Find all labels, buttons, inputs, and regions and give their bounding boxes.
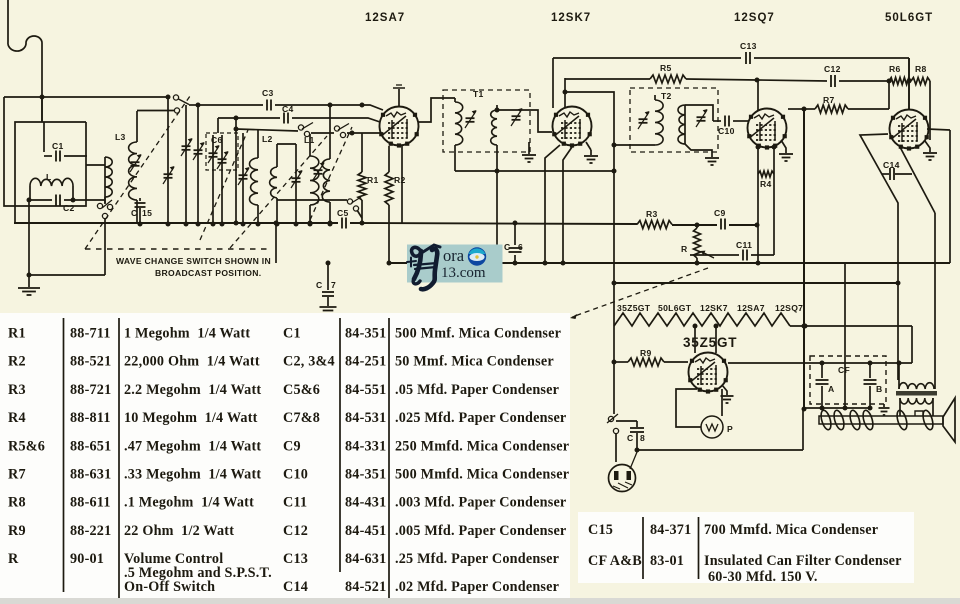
svg-text:60-30 Mfd. 150 V.: 60-30 Mfd. 150 V. <box>708 569 818 585</box>
svg-text:C3: C3 <box>262 88 274 98</box>
filter CF dashed box <box>810 356 886 404</box>
wire SW4 to 12SA7 grid <box>347 132 380 134</box>
svg-text:C1: C1 <box>283 326 301 342</box>
plug <box>609 465 636 492</box>
wire output diagonal D2 <box>900 147 935 213</box>
T1 winding primary <box>454 98 456 102</box>
svg-text:R4: R4 <box>8 410 26 426</box>
svg-text:12SA7: 12SA7 <box>365 12 405 24</box>
wire R7 right corner <box>888 81 890 109</box>
svg-text:R5&6: R5&6 <box>8 438 45 454</box>
svg-text:88-711: 88-711 <box>70 326 111 342</box>
svg-text:84-431: 84-431 <box>345 495 386 511</box>
T2 winding primary <box>654 95 656 100</box>
svg-text:6: 6 <box>518 242 523 252</box>
trimmer gang vert 1 <box>167 97 169 224</box>
svg-text:R3: R3 <box>8 382 26 398</box>
parts table C15 CF <box>578 512 914 583</box>
svg-text:C13: C13 <box>283 551 308 567</box>
T1 winding secondary <box>496 105 498 110</box>
svg-text:L3: L3 <box>115 132 126 142</box>
ground G3 under T1 <box>528 142 530 154</box>
dashed gang line 4 <box>310 127 352 220</box>
svg-text:88-651: 88-651 <box>70 438 111 454</box>
svg-text:R4: R4 <box>760 179 772 189</box>
dashed gang line 3 <box>230 136 327 248</box>
svg-text:R7: R7 <box>823 95 835 105</box>
transformer T2 dashed box <box>630 88 718 152</box>
svg-text:L2: L2 <box>262 134 273 144</box>
svg-text:R3: R3 <box>646 209 658 219</box>
svg-text:C14: C14 <box>883 160 900 170</box>
tube 50L6GT <box>890 110 929 149</box>
svg-text:T2: T2 <box>661 91 672 101</box>
svg-text:C1: C1 <box>52 141 64 151</box>
svg-text:R1: R1 <box>367 175 379 185</box>
tube 12SK7 <box>553 107 592 146</box>
wire T1 sec top to 12SK7 grid <box>497 110 552 132</box>
svg-text:BROADCAST POSITION.: BROADCAST POSITION. <box>155 268 261 278</box>
coil L3 winding A <box>105 157 112 197</box>
trimmer gang vert 2b <box>185 105 187 224</box>
coil L2 winding C <box>276 144 278 167</box>
output transformer core <box>896 391 937 396</box>
trimmer gang vert 2 <box>197 105 199 224</box>
svg-text:84-371: 84-371 <box>650 522 691 538</box>
svg-text:R: R <box>681 244 688 254</box>
capacitor C12 <box>757 80 827 81</box>
svg-text:C2, 3&4: C2, 3&4 <box>283 354 335 370</box>
ground G2 under C7 <box>320 306 337 308</box>
svg-text:22 Ohm 1/2 Watt: 22 Ohm 1/2 Watt <box>124 523 234 539</box>
svg-text:C10: C10 <box>718 126 735 136</box>
capacitor C2 <box>29 199 52 201</box>
svg-text:12SQ7: 12SQ7 <box>734 12 775 24</box>
bus B AVC <box>389 262 950 264</box>
capacitor C11 <box>690 254 739 256</box>
bus C ground <box>614 282 898 284</box>
svg-text:7: 7 <box>331 280 336 290</box>
wire T1 AVC return <box>455 170 614 172</box>
svg-text:R1: R1 <box>8 326 26 342</box>
wire R5 screen corner <box>564 78 566 107</box>
svg-text:15: 15 <box>142 208 152 218</box>
coil L2 winding A <box>242 133 244 224</box>
T2 winding secondary <box>684 105 686 144</box>
wire B plus from cathode <box>728 362 912 364</box>
wire 12SK7 cathode 1 <box>545 145 560 263</box>
svg-text:.02 Mfd. Paper Condenser: .02 Mfd. Paper Condenser <box>395 579 559 595</box>
dashed gang line 2 <box>200 130 248 240</box>
switch SW4 <box>334 126 339 131</box>
capacitor C9 <box>717 219 729 230</box>
switch SW6 osc tap <box>347 199 352 204</box>
capacitor C10 <box>713 120 721 122</box>
capacitor C6 bypass <box>514 223 516 245</box>
svg-text:C5&6: C5&6 <box>283 382 320 398</box>
svg-text:90-01: 90-01 <box>70 551 104 567</box>
svg-text:12SK7: 12SK7 <box>551 12 591 24</box>
svg-text:88-521: 88-521 <box>70 354 111 370</box>
wire 35Z5 heater taps <box>694 326 696 353</box>
svg-text:C9: C9 <box>714 208 726 218</box>
resistor R2 <box>388 146 390 172</box>
node antenna junction <box>40 95 45 100</box>
wire R8 to 50L6 <box>929 81 931 140</box>
resistor R4 <box>757 147 759 168</box>
svg-text:84-351: 84-351 <box>345 326 386 342</box>
resistor R3 <box>637 221 672 229</box>
trimmer between L2 L1 <box>295 144 297 224</box>
svg-text:C2: C2 <box>63 203 75 213</box>
svg-text:.025 Mfd. Paper Condenser: .025 Mfd. Paper Condenser <box>395 410 566 426</box>
volume control wiper arrow <box>704 253 714 258</box>
capacitor C4 <box>280 113 292 124</box>
svg-text:84-631: 84-631 <box>345 551 386 567</box>
svg-text:L1: L1 <box>304 135 315 145</box>
ground G1 main <box>28 275 30 287</box>
bus A chassis AVC <box>14 222 338 224</box>
svg-text:84-351: 84-351 <box>345 467 386 483</box>
trimmer C6 dashed box <box>206 133 238 170</box>
svg-text:.33 Megohm 1/4 Watt: .33 Megohm 1/4 Watt <box>124 467 261 483</box>
wire T2 sec to C10 <box>685 105 713 121</box>
capacitor C3 <box>263 99 275 110</box>
wire C13 corner right <box>908 58 910 110</box>
loop antenna inner frame <box>15 122 86 206</box>
heater chain sawtooth <box>614 313 790 326</box>
svg-text:35Z5GT: 35Z5GT <box>683 335 737 350</box>
svg-text:C15: C15 <box>588 522 613 538</box>
capacitor C8 <box>616 420 637 422</box>
svg-text:R5: R5 <box>660 63 672 73</box>
svg-text:C6: C6 <box>211 135 223 145</box>
wire switch to plug <box>615 434 617 462</box>
resistor R1 <box>361 133 363 172</box>
svg-text:84-251: 84-251 <box>345 354 386 370</box>
trimmer gang vert 4 <box>221 135 223 224</box>
svg-text:.003 Mfd. Paper Condenser: .003 Mfd. Paper Condenser <box>395 495 566 511</box>
svg-text:1 Megohm 1/4 Watt: 1 Megohm 1/4 Watt <box>124 326 250 342</box>
svg-text:A: A <box>828 384 835 394</box>
ground G7 under 50L6 <box>925 141 930 152</box>
wire 12SQ7 top to C12 line <box>757 81 759 110</box>
svg-text:C10: C10 <box>283 467 308 483</box>
wire C13 corner left <box>552 58 554 108</box>
dashed link volume-switch <box>572 268 708 317</box>
coil L1 winding B <box>329 105 331 159</box>
wire after SW1 <box>189 104 198 106</box>
pilot lamp P <box>701 416 723 438</box>
tube 12SQ7 <box>748 109 787 148</box>
output transformer secondary <box>900 398 933 404</box>
svg-text:84-531: 84-531 <box>345 410 386 426</box>
wire loop to bus corner <box>14 206 16 223</box>
T1 trimmer primary <box>466 117 475 119</box>
svg-text:R8: R8 <box>915 64 927 74</box>
switch SW2 loop <box>97 203 102 208</box>
wire 12SK7 cathode 2 <box>563 147 572 263</box>
svg-text:12SK7: 12SK7 <box>700 303 728 313</box>
wire busB to CF <box>844 263 846 408</box>
T2 trimmer primary <box>639 118 648 120</box>
resistor R6 <box>889 78 911 85</box>
wire busB left end <box>275 223 277 263</box>
wire osc tap <box>277 199 347 201</box>
svg-text:84-551: 84-551 <box>345 382 386 398</box>
heater loom loops <box>819 409 833 431</box>
wire C2 to ground run <box>28 200 30 275</box>
transformer T1 dashed box <box>443 90 530 152</box>
output transformer primary <box>898 363 900 389</box>
svg-text:C: C <box>131 208 138 218</box>
svg-text:.47 Megohm 1/4 Watt: .47 Megohm 1/4 Watt <box>124 438 261 454</box>
svg-text:22,000 Ohm 1/4 Watt: 22,000 Ohm 1/4 Watt <box>124 354 260 370</box>
wire 12SA7 plate to T1 <box>418 98 455 122</box>
wire 12SA7 cathode down <box>401 145 403 223</box>
wire screen line <box>565 92 614 326</box>
capacitor C13 <box>741 52 754 64</box>
wire B plus top line <box>553 57 909 59</box>
capacitor C15 <box>139 198 141 201</box>
wire heater right corner <box>911 326 913 363</box>
svg-text:88-721: 88-721 <box>70 382 111 398</box>
svg-text:C12: C12 <box>824 64 841 74</box>
resistor R9 <box>628 358 664 366</box>
svg-text:50L6GT: 50L6GT <box>885 12 933 24</box>
ground G8 under 35Z5 <box>722 385 727 395</box>
svg-text:R9: R9 <box>640 348 652 358</box>
svg-text:84-331: 84-331 <box>345 438 386 454</box>
svg-text:C9: C9 <box>283 438 301 454</box>
svg-text:WAVE CHANGE SWITCH SHOWN IN: WAVE CHANGE SWITCH SHOWN IN <box>116 256 271 266</box>
capacitor C1 <box>43 122 45 152</box>
node R6 junction <box>887 79 892 84</box>
svg-text:12SQ7: 12SQ7 <box>775 303 803 313</box>
svg-text:C14: C14 <box>283 579 308 595</box>
wire T2 primary feed <box>614 144 655 146</box>
volume control R <box>694 228 701 258</box>
wire 50L6 cathode to busB <box>927 129 950 130</box>
svg-text:13.com: 13.com <box>441 265 486 281</box>
svg-text:.005 Mfd. Paper Condenser: .005 Mfd. Paper Condenser <box>395 523 566 539</box>
svg-text:700 Mmfd. Mica Condenser: 700 Mmfd. Mica Condenser <box>704 522 878 538</box>
wire grid line C4 <box>218 118 380 122</box>
switch SW1 antenna <box>173 95 178 100</box>
svg-text:50 Mmf. Mica Condenser: 50 Mmf. Mica Condenser <box>395 354 554 370</box>
parts table resistors and condensers <box>0 313 570 598</box>
wire 50L6 grid top <box>908 58 910 110</box>
coil L3 winding B <box>136 111 138 142</box>
svg-text:B: B <box>876 384 883 394</box>
svg-text:R8: R8 <box>8 495 26 511</box>
grid cap ground 12SA7 <box>398 89 400 107</box>
svg-text:CF: CF <box>838 365 850 375</box>
pilot lamp loop <box>676 389 701 427</box>
wire C4 corner <box>217 118 219 133</box>
trimmer in L1 <box>314 169 323 171</box>
svg-text:R6: R6 <box>889 64 901 74</box>
svg-text:2.2 Megohm 1/4 Watt: 2.2 Megohm 1/4 Watt <box>124 382 261 398</box>
svg-text:T1: T1 <box>473 89 484 99</box>
loop antenna outer frame <box>4 97 86 206</box>
svg-text:CF A&B: CF A&B <box>588 553 642 569</box>
capacitor C14 <box>882 173 889 175</box>
speaker <box>943 398 955 442</box>
svg-text:ora: ora <box>443 246 465 265</box>
ground G9 CF <box>883 404 885 407</box>
wire B minus vertical <box>803 109 805 409</box>
wire screen B line <box>565 78 650 80</box>
svg-text:8: 8 <box>640 433 645 443</box>
svg-text:C: C <box>504 242 511 252</box>
ground G5 under T2 <box>685 144 712 157</box>
svg-text:84-521: 84-521 <box>345 579 386 595</box>
T1 trimmer secondary <box>512 115 521 117</box>
svg-text:P: P <box>727 424 733 434</box>
svg-text:C13: C13 <box>740 41 757 51</box>
tube 35Z5GT <box>689 353 728 392</box>
svg-text:83-01: 83-01 <box>650 553 684 569</box>
svg-text:12SA7: 12SA7 <box>737 303 765 313</box>
svg-text:R: R <box>8 551 19 567</box>
wire AVC line top-left <box>4 96 168 98</box>
svg-text:C5: C5 <box>337 208 349 218</box>
svg-text:R7: R7 <box>8 467 26 483</box>
wire heater left down <box>613 326 615 362</box>
wire CF bottom line <box>804 407 870 409</box>
svg-text:84-451: 84-451 <box>345 523 386 539</box>
svg-text:88-631: 88-631 <box>70 467 111 483</box>
ground G4 under 12SK7 <box>586 142 591 150</box>
heater loom bar <box>819 416 943 424</box>
ground G6 under 12SQ7 <box>781 140 786 153</box>
svg-text:88-611: 88-611 <box>70 495 111 511</box>
coil L <box>30 178 73 186</box>
svg-text:Insulated Can Filter Condenser: Insulated Can Filter Condenser <box>704 553 902 569</box>
svg-text:C11: C11 <box>283 495 307 511</box>
svg-text:L: L <box>46 172 52 182</box>
T2 trimmer secondary <box>697 116 706 118</box>
wire C8 bottom run <box>637 449 803 451</box>
capacitor CF B <box>869 363 871 378</box>
svg-text:C12: C12 <box>283 523 308 539</box>
svg-text:C7&8: C7&8 <box>283 410 320 426</box>
wire SW3 to SW4 <box>311 132 334 134</box>
resistor R5 <box>650 75 686 83</box>
svg-text:500 Mmf. Mica Condenser: 500 Mmf. Mica Condenser <box>395 326 561 342</box>
wire loop right to L3 <box>86 164 105 166</box>
svg-text:C4: C4 <box>282 104 294 114</box>
svg-text:.25 Mfd. Paper Condenser: .25 Mfd. Paper Condenser <box>395 551 559 567</box>
trimmer C6 gang vert 3 <box>212 135 214 224</box>
antenna lead-in <box>8 0 42 121</box>
svg-text:88-811: 88-811 <box>70 410 111 426</box>
dashed gang horizontal <box>85 248 270 250</box>
svg-text:C: C <box>316 280 323 290</box>
switch SW3 <box>298 125 303 130</box>
wire output diagonal D1 <box>860 134 898 380</box>
capacitor CF A <box>821 363 823 378</box>
svg-text:500 Mmfd. Mica Condenser: 500 Mmfd. Mica Condenser <box>395 467 569 483</box>
watermark hora13 <box>407 245 503 283</box>
resistor R8 <box>911 78 930 85</box>
svg-text:.1 Megohm 1/4 Watt: .1 Megohm 1/4 Watt <box>124 495 254 511</box>
svg-text:88-221: 88-221 <box>70 523 111 539</box>
trimmer on L3 <box>131 161 140 163</box>
switch SW on-off <box>613 362 615 414</box>
coil L1 winding A <box>309 134 311 156</box>
svg-text:R2: R2 <box>8 354 26 370</box>
capacitor C7 to ground <box>327 263 329 290</box>
svg-text:On-Off Switch: On-Off Switch <box>124 579 215 595</box>
resistor R7 line <box>788 108 804 110</box>
svg-text:10 Megohm 1/4 Watt: 10 Megohm 1/4 Watt <box>124 410 258 426</box>
wire R5 to C12 line <box>686 79 757 80</box>
svg-text:35Z5GT: 35Z5GT <box>617 303 651 313</box>
heater loom notch <box>915 411 923 416</box>
page background tint <box>0 598 960 604</box>
svg-text:50L6GT: 50L6GT <box>658 303 692 313</box>
wire grid line C3 <box>198 105 383 110</box>
wire grid line osc <box>236 129 298 131</box>
svg-text:R2: R2 <box>394 175 406 185</box>
dashed gang line 1 <box>85 96 190 249</box>
svg-text:.05 Mfd. Paper Condenser: .05 Mfd. Paper Condenser <box>395 382 559 398</box>
svg-text:C11: C11 <box>736 240 752 250</box>
coil L2 winding B <box>257 129 259 158</box>
svg-text:C: C <box>627 433 634 443</box>
svg-text:250 Mmfd. Mica Condenser: 250 Mmfd. Mica Condenser <box>395 438 569 454</box>
capacitor C5 series in bus <box>341 218 343 229</box>
svg-text:R9: R9 <box>8 523 26 539</box>
tube 12SA7 <box>380 107 419 146</box>
